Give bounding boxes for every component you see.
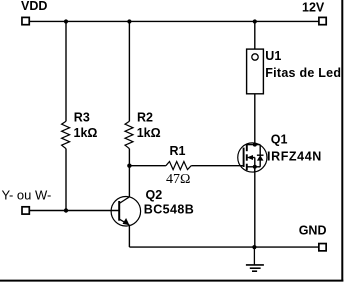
wire R1 left lead xyxy=(129,165,166,167)
svg-text:Q1: Q1 xyxy=(271,133,288,147)
wire R2 top lead xyxy=(128,21,130,121)
transistor Q1 IRFZ44N xyxy=(238,143,267,173)
junction R2 top xyxy=(127,19,131,23)
wire base rail xyxy=(30,210,120,212)
svg-text:12V: 12V xyxy=(302,1,325,15)
svg-text:Fitas de Led: Fitas de Led xyxy=(265,66,341,80)
junction ground tap xyxy=(252,245,256,249)
ground xyxy=(246,247,264,271)
svg-text:1kΩ: 1kΩ xyxy=(74,126,98,140)
terminal 12V xyxy=(319,17,326,24)
wire ground rail xyxy=(129,246,318,248)
wire Q2 emitter to rail xyxy=(128,225,130,247)
svg-text:R3: R3 xyxy=(74,110,90,124)
svg-text:R1: R1 xyxy=(170,144,186,158)
junction R1 tap xyxy=(127,164,131,168)
sheet border bottom edge xyxy=(0,280,343,282)
wire R2 to Q2 collector xyxy=(128,149,130,197)
svg-text:BC548B: BC548B xyxy=(144,203,194,217)
resistor R1 xyxy=(166,162,191,170)
svg-text:Q2: Q2 xyxy=(146,188,163,202)
wire R3 top lead xyxy=(65,21,67,121)
terminal Y- ou W- xyxy=(22,207,29,214)
svg-text:GND: GND xyxy=(299,224,327,238)
svg-text:U1: U1 xyxy=(265,49,281,63)
sheet border right edge xyxy=(341,0,343,282)
svg-text:R2: R2 xyxy=(137,110,153,124)
terminal GND xyxy=(319,244,326,251)
junction R3 bottom xyxy=(64,208,68,212)
wire U1 to Q1 drain xyxy=(254,94,256,145)
terminal VDD xyxy=(22,17,29,24)
junction R3 top xyxy=(64,19,68,23)
wire rail to U1 xyxy=(254,21,256,49)
resistor R3 xyxy=(62,121,70,148)
svg-text:IRFZ44N: IRFZ44N xyxy=(267,149,322,163)
junction U1 top xyxy=(253,19,257,23)
svg-text:47Ω: 47Ω xyxy=(166,172,190,187)
svg-text:1kΩ: 1kΩ xyxy=(137,126,161,140)
transistor Q2 BC548B xyxy=(111,197,141,227)
svg-text:Y- ou W-: Y- ou W- xyxy=(2,188,52,203)
LED strip U1 xyxy=(247,49,264,94)
wire R1 to Q1 gate xyxy=(191,165,243,167)
resistor R2 xyxy=(125,121,133,148)
svg-text:VDD: VDD xyxy=(21,0,47,13)
wire Q1 source to rail xyxy=(254,167,256,247)
wire VDD rail xyxy=(30,20,319,22)
wire R3 bottom lead xyxy=(65,149,67,211)
